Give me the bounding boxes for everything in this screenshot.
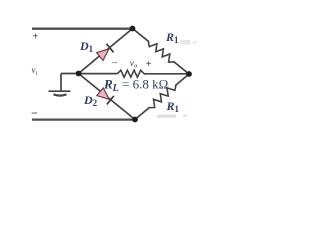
faint artifact near top R1: [180, 40, 197, 45]
node left junction: [76, 71, 82, 77]
resistor R1 top zigzag: [148, 41, 174, 62]
resistor RL zigzag: [118, 70, 145, 77]
wire R1 bottom arm (bottom node to right node): [135, 74, 189, 120]
svg-text:vi: vi: [32, 65, 38, 77]
wire D1 arm (left node to top node): [79, 29, 133, 74]
svg-text:D2: D2: [83, 93, 98, 108]
wire D2 arm (left node to bottom node): [79, 74, 136, 120]
wire ground riser: [60, 74, 62, 92]
ground: [49, 91, 71, 95]
node top junction: [130, 26, 136, 32]
svg-text:D1: D1: [79, 39, 94, 54]
node right junction: [186, 71, 192, 77]
wire top rail: [32, 28, 133, 30]
svg-text:R1: R1: [166, 99, 180, 114]
wire ground stub horizontal: [61, 73, 79, 75]
svg-text:vo: vo: [130, 59, 138, 70]
wire RL right segment: [144, 73, 189, 75]
diode D2: [97, 88, 114, 105]
wire R1 top arm (top node to right node): [133, 29, 190, 75]
faint artifact dashes bottom right: [157, 115, 187, 118]
label vo with polarity: [112, 58, 152, 71]
diode D1: [97, 44, 114, 61]
node bottom junction: [132, 117, 138, 123]
svg-text:+: +: [33, 32, 39, 43]
svg-text:−: −: [112, 58, 118, 70]
wire RL left segment: [79, 73, 118, 75]
svg-text:R1: R1: [165, 30, 179, 45]
resistor R1 bottom zigzag: [149, 85, 176, 108]
wire bottom rail: [32, 118, 135, 120]
svg-text:−: −: [31, 106, 38, 120]
svg-text:+: +: [146, 59, 152, 70]
svg-text:RL = 6.8 kΩ: RL = 6.8 kΩ: [103, 77, 168, 94]
